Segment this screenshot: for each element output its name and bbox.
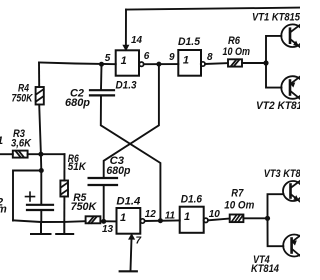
ground 1 bbox=[31, 222, 51, 234]
svg-text:11: 11 bbox=[165, 210, 176, 221]
wire: D1.3 input rail bbox=[39, 63, 116, 65]
ground bar pin 7 bbox=[120, 270, 137, 272]
wire: pin 7 ground lead bbox=[131, 238, 132, 270]
svg-text:680p: 680p bbox=[65, 97, 90, 109]
node: cross-couple junction bbox=[156, 62, 161, 67]
svg-text:6: 6 bbox=[144, 51, 150, 62]
wire: D1.3 out to D1.5 in bbox=[144, 63, 179, 65]
svg-text:680p: 680p bbox=[106, 165, 130, 177]
gate D1.3 output bubble pin 6 bbox=[139, 62, 143, 66]
node: VT3/VT4 base junction bbox=[265, 216, 270, 221]
gate D1.3 box bbox=[116, 50, 139, 75]
wire: R4 bottom lead bbox=[39, 105, 41, 155]
svg-text:5: 5 bbox=[105, 53, 111, 64]
transistor VT3 KT815 (NPN) bbox=[283, 181, 303, 203]
wire: column to electrolytic cap bbox=[40, 154, 42, 204]
svg-text:1: 1 bbox=[184, 211, 190, 223]
wire: down to VT4 base bbox=[268, 218, 284, 246]
svg-text:m: m bbox=[0, 204, 7, 216]
svg-text:D1.5: D1.5 bbox=[178, 36, 201, 48]
wire: D1.4 out to D1.6 in bbox=[145, 220, 180, 223]
svg-text:D1.4: D1.4 bbox=[116, 196, 140, 208]
capacitor electrolytic plates bbox=[27, 205, 53, 210]
node: D1.3 input / C2 junction bbox=[99, 62, 104, 67]
wire: +V top rail bbox=[126, 8, 300, 10]
svg-text:3,6K: 3,6K bbox=[11, 138, 32, 150]
wire: C3 bottom lead bbox=[103, 185, 105, 221]
gate D1.5 output bubble pin 8 bbox=[201, 62, 205, 66]
wire: C2 to D1.4 output (cross) bbox=[101, 95, 161, 220]
wire: R6 to bases VT1/VT2 bbox=[242, 62, 266, 64]
gate D1.6 output bubble pin 10 bbox=[204, 218, 208, 222]
svg-text:1: 1 bbox=[121, 55, 127, 67]
gate D1.4 output bubble pin 12 bbox=[140, 219, 144, 223]
transistor VT2 KT814 (PNP) bbox=[281, 76, 304, 99]
svg-text:VT3 KT815: VT3 KT815 bbox=[264, 168, 300, 180]
svg-text:51K: 51K bbox=[68, 161, 87, 173]
resistor R4 750K (vertical) bbox=[36, 87, 44, 105]
svg-text:12: 12 bbox=[145, 209, 157, 220]
svg-text:14: 14 bbox=[131, 35, 143, 46]
wire: R4 top lead from input rail bbox=[38, 63, 40, 88]
svg-text:1: 1 bbox=[0, 135, 3, 147]
svg-text:VT1 KT815: VT1 KT815 bbox=[252, 12, 300, 24]
node: D1.4 output junction bbox=[158, 218, 163, 223]
wire: left rail to R3 bbox=[0, 153, 13, 155]
svg-text:8: 8 bbox=[207, 52, 213, 63]
svg-text:7: 7 bbox=[136, 236, 142, 247]
svg-text:10 Om: 10 Om bbox=[224, 200, 254, 212]
wire: bottom common rail bbox=[13, 220, 117, 222]
transistor VT4 KT814 (PNP) bbox=[283, 235, 305, 258]
wire: pin 14 drop to D1.3 bbox=[125, 10, 127, 46]
resistor R7 10 Om bbox=[230, 215, 244, 223]
gate D1.6 box bbox=[180, 207, 204, 233]
node: VT1/VT2 base junction bbox=[263, 60, 268, 65]
pin 7 arrow into D1.4 bottom bbox=[129, 234, 134, 239]
gate D1.4 box bbox=[117, 208, 141, 234]
wire: D1.5 out to R6 bbox=[205, 62, 228, 65]
capacitor C2 plates bbox=[90, 90, 114, 95]
svg-text:13: 13 bbox=[102, 224, 114, 235]
svg-text:D1.3: D1.3 bbox=[116, 80, 137, 92]
node: D1.4 input junction bbox=[101, 219, 106, 224]
wire: corner down to R6 51K bbox=[63, 154, 65, 180]
svg-text:KT814: KT814 bbox=[251, 263, 279, 275]
resistor R6 51K (vertical) bbox=[60, 181, 68, 197]
transistor VT1 KT815 (NPN) bbox=[281, 24, 304, 47]
svg-text:750K: 750K bbox=[12, 93, 34, 105]
svg-text:10 Om: 10 Om bbox=[223, 46, 251, 58]
svg-text:9: 9 bbox=[169, 52, 175, 63]
resistor R6 10 Om bbox=[228, 59, 242, 66]
capacitor C2 680p lead bbox=[100, 64, 103, 89]
wire: cap bottom lead bbox=[40, 210, 42, 222]
svg-text:1: 1 bbox=[120, 212, 126, 224]
capacitor C2 electrolytic plus sign bbox=[26, 192, 35, 201]
svg-text:10: 10 bbox=[209, 209, 221, 220]
wire: up to VT1 base bbox=[266, 36, 281, 63]
wire: down to VT2 base bbox=[266, 63, 282, 88]
wire: R6 51K bottom lead bbox=[63, 197, 65, 222]
resistor R5 750K bbox=[86, 216, 101, 223]
node: loop junction bbox=[39, 168, 44, 173]
ground 2 bbox=[56, 222, 73, 234]
svg-text:1: 1 bbox=[183, 55, 189, 67]
wire: R3 to R6 corner bbox=[28, 153, 65, 155]
wire: R7 to bases VT3/VT4 bbox=[243, 217, 267, 219]
pin 14 arrow into D1.3 top bbox=[123, 45, 128, 50]
gate D1.5 box bbox=[178, 50, 201, 76]
svg-text:R7: R7 bbox=[231, 188, 244, 200]
resistor R3 3,6K bbox=[13, 151, 28, 158]
svg-text:750K: 750K bbox=[71, 201, 98, 213]
svg-text:VT2 KT814: VT2 KT814 bbox=[256, 100, 300, 112]
wire: loop left branch bbox=[13, 171, 41, 221]
wire: D1.6 out to R7 bbox=[208, 219, 230, 221]
node: R4/R3 junction bbox=[38, 152, 43, 157]
capacitor C3 plates bbox=[89, 178, 117, 185]
wire: up to VT3 base bbox=[268, 194, 284, 218]
svg-text:D1.6: D1.6 bbox=[181, 193, 203, 205]
wire: node to C3 (cross) bbox=[104, 64, 159, 177]
